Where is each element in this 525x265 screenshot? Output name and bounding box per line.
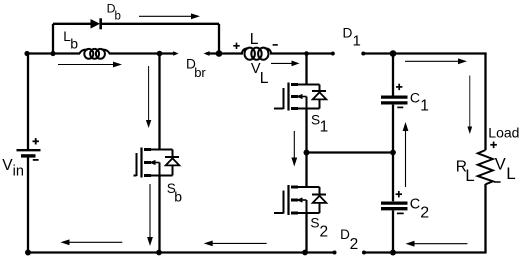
svg-text:L: L — [260, 70, 269, 87]
svg-text:L: L — [250, 31, 259, 48]
svg-text:D: D — [340, 227, 350, 242]
svg-text:b: b — [115, 11, 121, 23]
svg-text:Load: Load — [488, 125, 519, 141]
svg-text:C: C — [410, 90, 420, 106]
svg-text:b: b — [174, 189, 182, 205]
svg-text:in: in — [13, 163, 24, 179]
svg-text:V: V — [2, 157, 13, 174]
svg-text:L: L — [465, 166, 474, 185]
svg-text:2: 2 — [420, 204, 429, 221]
svg-text:V: V — [495, 155, 506, 173]
svg-text:2: 2 — [320, 224, 329, 241]
svg-text:1: 1 — [320, 119, 329, 136]
svg-text:S: S — [310, 216, 319, 231]
svg-text:C: C — [410, 196, 420, 212]
svg-text:br: br — [194, 65, 206, 80]
svg-text:b: b — [70, 36, 78, 52]
svg-text:2: 2 — [350, 236, 359, 253]
svg-text:L: L — [506, 164, 515, 183]
svg-text:1: 1 — [420, 98, 429, 115]
svg-text:1: 1 — [353, 32, 361, 49]
svg-text:D: D — [343, 26, 353, 41]
